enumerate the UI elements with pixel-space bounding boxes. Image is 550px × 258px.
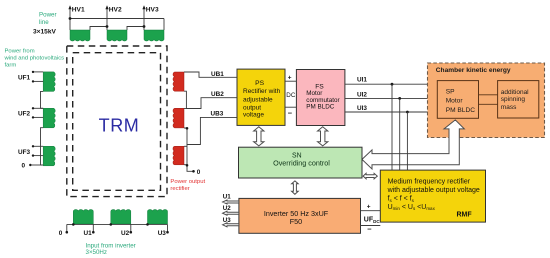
- node bus junction 2: [110, 223, 113, 226]
- svg-text:adjustable: adjustable: [243, 96, 273, 103]
- wire UF3 top: [33, 145, 43, 147]
- wire coil3 bottom stub: [184, 164, 187, 166]
- wire UI3 drop: [406, 112, 408, 170]
- wire U1 stub: [92, 224, 94, 232]
- wire bottom bus: [67, 223, 168, 225]
- svg-text:line: line: [39, 19, 49, 26]
- label power from wind: [4, 49, 65, 69]
- wire UI2: [345, 97, 437, 99]
- svg-text:Overriding control: Overriding control: [273, 159, 330, 168]
- svg-text:UB1: UB1: [211, 71, 224, 78]
- svg-text:PM BLDC: PM BLDC: [306, 104, 334, 111]
- svg-text:UI1: UI1: [357, 76, 367, 83]
- svg-text:Chamber kinetic energy: Chamber kinetic energy: [436, 67, 511, 74]
- wire coil3 top stub: [184, 145, 187, 147]
- wire HV2 stub: [106, 7, 108, 30]
- svg-text:Medium frequency rectifier: Medium frequency rectifier: [388, 179, 471, 186]
- block chamber kinetic energy: [428, 63, 545, 138]
- coil UF1 winding: [43, 72, 55, 92]
- svg-text:RMF: RMF: [457, 212, 473, 219]
- wire chain tail to 0: [187, 145, 194, 172]
- svg-text:HV1: HV1: [72, 7, 85, 14]
- coil UB3 winding (red): [173, 146, 184, 165]
- node UB junction 1: [186, 127, 189, 130]
- wire chain coil1-coil2: [41, 91, 44, 108]
- svg-text:U1: U1: [84, 230, 93, 237]
- coil U1 winding (bottom): [73, 209, 93, 224]
- coil U3 winding (bottom): [148, 209, 168, 224]
- label input from inverter: [86, 242, 136, 256]
- arrow HV2: [105, 5, 108, 9]
- wire UI1: [345, 83, 437, 85]
- wire bus right drop: [163, 19, 165, 31]
- svg-text:U3: U3: [158, 230, 167, 237]
- svg-text:spinning: spinning: [501, 96, 526, 103]
- svg-text:3×50Hz: 3×50Hz: [86, 249, 108, 256]
- wire UB1: [184, 72, 237, 77]
- node 0 terminal: [29, 164, 31, 166]
- wire coil2 top stub: [184, 108, 186, 110]
- arrow U3 out: [223, 223, 239, 227]
- wire UB2: [184, 91, 237, 108]
- node UF2 terminals: [32, 107, 34, 109]
- node HV3 junction: [143, 25, 146, 28]
- node bus junction 3: [146, 223, 149, 226]
- coil HV winding 3: [144, 30, 164, 41]
- wire UF1 lower: [33, 80, 43, 82]
- svg-text:rectifier: rectifier: [170, 186, 189, 192]
- svg-text:U2: U2: [121, 230, 130, 237]
- svg-text:wind and photovoltaics: wind and photovoltaics: [4, 56, 65, 62]
- svg-text:Motor: Motor: [446, 98, 464, 105]
- wire UI2 drop: [399, 98, 401, 170]
- wire UB3: [184, 117, 237, 144]
- svg-text:3×15kV: 3×15kV: [33, 29, 57, 36]
- wire PS-FS minus: [285, 106, 296, 108]
- arrow SN-inverter double: [292, 181, 299, 194]
- block RMF medium frequency rectifier: [380, 170, 485, 222]
- block SN overriding control: [239, 147, 363, 178]
- svg-text:UI3: UI3: [357, 105, 367, 112]
- arrow HV3: [142, 5, 145, 9]
- svg-text:F50: F50: [290, 217, 302, 226]
- TRM inner dashed box: [73, 53, 161, 191]
- wire SP-mass link top: [479, 94, 498, 96]
- node U2 terminal: [130, 231, 133, 234]
- wire UF2 lower: [33, 116, 43, 118]
- svg-text:mass: mass: [501, 104, 517, 111]
- node UB junction 2: [186, 164, 189, 167]
- node UF1 terminals: [32, 71, 34, 73]
- coil HV winding 2: [107, 30, 127, 41]
- svg-text:Power: Power: [39, 12, 57, 19]
- wire U2 stub: [130, 224, 132, 232]
- wire HV3 stub: [143, 7, 145, 30]
- svg-text:HV2: HV2: [109, 7, 122, 14]
- coil UF3 winding: [43, 146, 55, 165]
- svg-text:fs < f < fs: fs < f < fs: [388, 196, 415, 203]
- wire HV1 stub: [69, 7, 71, 30]
- svg-text:additional: additional: [501, 89, 529, 96]
- coil UB1 winding (red): [173, 72, 184, 91]
- svg-text:voltage: voltage: [243, 112, 264, 119]
- svg-text:Power output: Power output: [170, 179, 205, 185]
- node U1 terminal: [92, 231, 95, 234]
- wire inverter-RMF minus: [361, 225, 381, 227]
- node HV2 junction: [106, 25, 109, 28]
- svg-text:farm: farm: [5, 63, 17, 69]
- svg-text:UF1: UF1: [18, 74, 31, 81]
- arrow HV1: [68, 5, 71, 9]
- wire UF2 top: [33, 107, 43, 109]
- svg-text:Power from: Power from: [5, 49, 35, 55]
- node HV1 junction: [69, 17, 72, 20]
- svg-text:UB3: UB3: [211, 111, 224, 118]
- node bus junction 1: [72, 223, 75, 226]
- wire jog coil1-coil2: [90, 27, 107, 31]
- wire UF1 top: [33, 71, 43, 73]
- svg-text:PS: PS: [255, 80, 264, 87]
- block additional spinning mass: [498, 81, 539, 118]
- wire SP-mass link bottom: [479, 103, 498, 105]
- wire HV bus: [70, 7, 164, 30]
- node 0 right terminal: [192, 170, 195, 173]
- svg-text:UI2: UI2: [357, 92, 367, 99]
- wire UF3 lower: [33, 155, 43, 157]
- svg-text:0: 0: [197, 169, 201, 176]
- TRM outer dashed box: [67, 46, 167, 197]
- svg-text:Rectifier with: Rectifier with: [243, 88, 281, 95]
- coil UB2 winding (red): [173, 108, 184, 128]
- svg-text:TRM: TRM: [99, 116, 140, 136]
- node UF3 terminals: [32, 145, 34, 147]
- wire 0 stub: [66, 224, 68, 232]
- svg-text:U1: U1: [223, 193, 231, 200]
- power line label: [39, 12, 57, 27]
- svg-text:−: −: [288, 108, 293, 117]
- wire inverter-RMF plus: [361, 210, 381, 212]
- arrow SN-RMF double: [363, 173, 377, 179]
- svg-text:UF3: UF3: [18, 149, 31, 156]
- coil UF2 winding: [43, 108, 55, 128]
- arrow U1 out: [223, 200, 239, 204]
- wire jog coil2-coil3: [127, 27, 144, 31]
- node 0 bottom terminal: [66, 231, 69, 234]
- svg-text:−: −: [367, 225, 372, 234]
- node UI2 tap: [398, 97, 401, 100]
- wire 0 bottom: [30, 164, 43, 166]
- svg-text:0: 0: [22, 163, 26, 170]
- node U3 terminal: [166, 231, 169, 234]
- wire UI3: [345, 111, 437, 113]
- arrow FS-SN double: [318, 127, 328, 146]
- coil HV winding 1: [70, 30, 90, 41]
- arrow U2 out: [223, 211, 239, 215]
- svg-text:UF2: UF2: [18, 111, 31, 118]
- coil U2 winding (bottom): [111, 209, 131, 224]
- node UI3 tap: [406, 111, 409, 114]
- wire chain coil2-coil3: [41, 128, 44, 165]
- block FS motor commutator: [296, 70, 345, 126]
- svg-text:UB2: UB2: [211, 91, 224, 98]
- svg-text:U2: U2: [223, 205, 231, 212]
- svg-text:with adjustable output voltage: with adjustable output voltage: [387, 187, 480, 194]
- svg-text:PM BLDC: PM BLDC: [446, 107, 476, 114]
- svg-text:+: +: [367, 204, 371, 211]
- arrow PS-SN double: [254, 127, 264, 146]
- svg-text:0: 0: [59, 230, 63, 237]
- wire UI1 drop: [391, 84, 393, 170]
- node UI1 tap: [391, 83, 394, 86]
- label power output rectifier: [170, 179, 205, 192]
- svg-text:HV3: HV3: [146, 7, 159, 14]
- svg-text:SP: SP: [446, 88, 455, 95]
- block SP motor: [437, 81, 478, 119]
- svg-text:output: output: [243, 104, 261, 111]
- svg-text:+: +: [288, 75, 292, 82]
- svg-text:U3: U3: [223, 217, 231, 224]
- block inverter F50: [239, 198, 361, 233]
- block PS rectifier: [237, 69, 285, 125]
- wire PS-FS plus: [285, 80, 296, 82]
- arrow L-shaped into SN and SP: [362, 120, 464, 169]
- svg-text:DC: DC: [286, 92, 296, 99]
- wire U3 stub: [167, 224, 169, 232]
